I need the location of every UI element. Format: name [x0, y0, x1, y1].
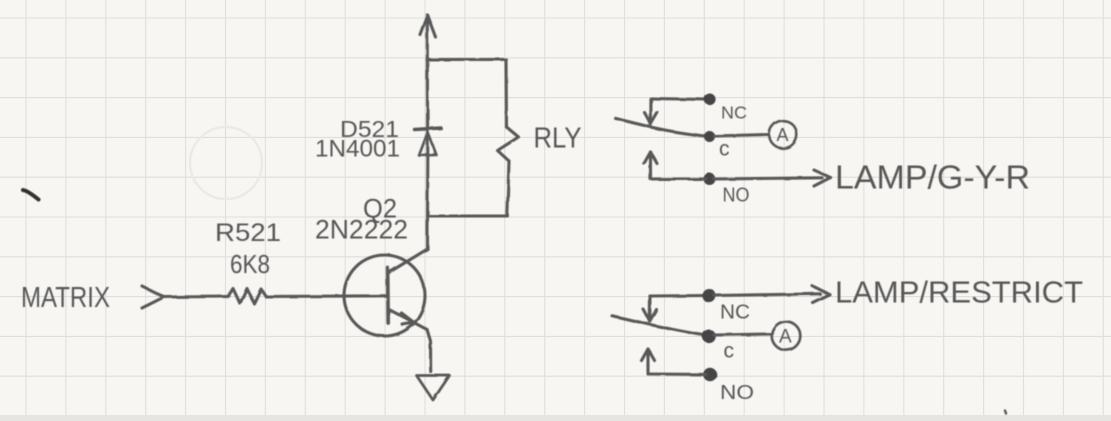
- node NO 2: [703, 368, 717, 382]
- ground: [417, 376, 450, 401]
- faint embossed watermark circle: [190, 127, 262, 199]
- node NO 1: [704, 173, 716, 185]
- wire C to annunciator 1: [714, 135, 769, 137]
- svg-text:LAMP/G-Y-R: LAMP/G-Y-R: [835, 158, 1030, 196]
- wire NO to lamp output 1: [714, 178, 822, 179]
- relay coil RLY: [498, 60, 519, 217]
- wire bottom branch: [428, 214, 508, 217]
- wire collector vertical: [426, 60, 429, 128]
- wire NC to lamp output 2: [714, 294, 820, 296]
- wire NO left 1: [651, 177, 706, 180]
- annunciator A 1: [769, 121, 797, 149]
- stray dot: [1006, 411, 1007, 414]
- svg-text:2N2222: 2N2222: [315, 215, 408, 245]
- svg-text:c: c: [719, 138, 730, 161]
- label MATRIX: [21, 280, 110, 313]
- node NC 1: [704, 94, 716, 106]
- wire NC 1: [651, 99, 706, 100]
- node C 1: [704, 131, 715, 142]
- svg-text:RLY: RLY: [534, 123, 582, 155]
- transistor Q2: [344, 249, 431, 372]
- actuation arrow up 1: [644, 152, 657, 179]
- wire diode to transistor: [426, 130, 429, 249]
- svg-text:NO: NO: [723, 185, 750, 207]
- wire base input: [164, 295, 228, 299]
- label LAMP/G-Y-R: [835, 158, 1030, 196]
- contact arm 1: [615, 118, 709, 136]
- output arrow 2: [813, 286, 830, 303]
- svg-text:R521: R521: [215, 219, 281, 247]
- node C 2: [702, 330, 716, 344]
- svg-text:A: A: [779, 327, 792, 348]
- actuation arrow down 1: [645, 99, 658, 125]
- wire top branch: [427, 58, 506, 61]
- power supply arrow: [420, 15, 436, 60]
- svg-text:A: A: [777, 125, 789, 145]
- svg-text:NO: NO: [720, 382, 754, 404]
- stray pencil mark: [23, 190, 39, 200]
- resistor R521: [228, 289, 266, 304]
- svg-text:NC: NC: [720, 302, 750, 324]
- label LAMP/RESTRICT: [835, 276, 1083, 310]
- svg-text:6K8: 6K8: [230, 249, 270, 279]
- diode D521: [415, 128, 442, 156]
- wire NC 2: [650, 294, 706, 298]
- wire C to annunciator 2: [714, 334, 772, 335]
- contact arm 2: [612, 316, 709, 336]
- actuation arrow down 2: [644, 296, 657, 321]
- output arrow 1: [814, 170, 831, 186]
- svg-text:NC: NC: [721, 103, 747, 123]
- actuation arrow up 2: [642, 349, 655, 373]
- wire NO left 2: [648, 372, 706, 375]
- annunciator A 2: [772, 322, 801, 351]
- svg-text:1N4001: 1N4001: [315, 136, 400, 163]
- svg-text:MATRIX: MATRIX: [21, 280, 110, 313]
- input chevron from MATRIX: [142, 286, 164, 308]
- node NC 2: [702, 289, 716, 303]
- svg-text:LAMP/RESTRICT: LAMP/RESTRICT: [835, 276, 1083, 310]
- svg-text:c: c: [724, 340, 735, 363]
- wire resistor to base: [266, 294, 388, 298]
